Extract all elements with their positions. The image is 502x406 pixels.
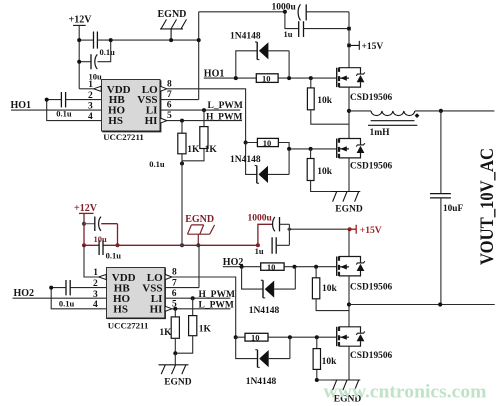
svg-text:H_PWM: H_PWM: [199, 290, 235, 300]
svg-text:10k: 10k: [317, 96, 333, 106]
svg-text:10k: 10k: [317, 167, 333, 177]
wire pin2 HB with bootstrap cap: [47, 99, 102, 101]
wire +12V stem: [78, 25, 80, 88]
svg-text:UCC27211: UCC27211: [108, 321, 149, 331]
wire pin1 VDD U2: [84, 245, 99, 277]
svg-text:10k: 10k: [322, 357, 338, 367]
net HO1 (right): [204, 69, 225, 80]
wire red EGND rail: [84, 244, 258, 246]
ground EGND (top): [158, 9, 187, 20]
svg-text:+12V: +12V: [69, 15, 93, 26]
svg-text:10: 10: [267, 262, 276, 272]
wire output (bottom): [349, 304, 495, 306]
wire +15V rail (bottom): [348, 229, 350, 256]
wire pin7 VSS to ground riser: [160, 99, 199, 101]
svg-text:+12V: +12V: [74, 203, 98, 214]
svg-text:10: 10: [263, 138, 272, 148]
power +12V (bottom, red): [74, 203, 98, 214]
svg-text:8: 8: [172, 268, 177, 278]
resistor R1 10: [256, 74, 278, 83]
inductor L1 1mH: [349, 110, 371, 112]
svg-text:HS: HS: [108, 115, 123, 127]
capacitor C1 0.1u: [94, 32, 98, 49]
pin 8 marker: [160, 86, 167, 91]
svg-text:8: 8: [167, 79, 172, 89]
capacitor C7 0.1u (bottom): [99, 240, 103, 255]
svg-text:1000u: 1000u: [248, 213, 273, 223]
svg-text:HI: HI: [145, 115, 158, 127]
capacitor C11 0.1u bootstrap U2: [66, 280, 70, 295]
svg-text:1K: 1K: [187, 145, 200, 155]
svg-text:EGND: EGND: [335, 204, 363, 214]
svg-text:6: 6: [172, 289, 177, 299]
wire Q4 source to ground: [348, 346, 350, 380]
svg-text:7: 7: [167, 90, 172, 100]
pin 8 marker U2: [165, 274, 172, 279]
wire red +12V stem: [83, 213, 85, 245]
transistor Q4 CSD19506: [337, 327, 365, 347]
transistor Q1 CSD19506: [337, 68, 365, 88]
svg-text:1mH: 1mH: [370, 128, 391, 138]
svg-text:CSD19506: CSD19506: [350, 351, 393, 361]
svg-text:1N4148: 1N4148: [230, 155, 261, 165]
wire pin6 LI: [160, 109, 240, 111]
resistor R9 10: [261, 263, 284, 270]
diode D1 1N4148 branch: [236, 51, 289, 78]
wire pin6 LI U2: [165, 297, 230, 299]
wire pin7 VSS U2 riser: [165, 245, 199, 287]
junction dots top-left: [77, 38, 113, 64]
resistor R2 10: [257, 138, 278, 146]
wire Q3 source to Q4 drain: [348, 276, 350, 327]
svg-text:EGND: EGND: [164, 377, 192, 387]
svg-text:L_PWM: L_PWM: [199, 300, 234, 310]
capacitor C5 10uF: [430, 194, 451, 198]
wire output cap riser: [440, 111, 442, 194]
svg-text:5: 5: [167, 111, 172, 121]
svg-text:UCC27211: UCC27211: [103, 132, 144, 142]
svg-text:10u: 10u: [94, 234, 108, 244]
svg-text:0.1u: 0.1u: [149, 159, 165, 169]
svg-text:+15V: +15V: [360, 226, 382, 236]
svg-text:HI: HI: [150, 303, 163, 315]
svg-text:0.1u: 0.1u: [100, 47, 116, 57]
svg-text:1u: 1u: [255, 246, 264, 256]
wire pin3 HO U2: [13, 297, 107, 299]
capacitor C8 1000u (bottom): [248, 213, 273, 223]
svg-text:HO2: HO2: [14, 288, 35, 299]
svg-text:VOUT_10V_AC: VOUT_10V_AC: [477, 148, 498, 265]
svg-text:1K: 1K: [199, 324, 212, 334]
resistor R8 1K: [191, 296, 195, 300]
capacitor C6 10u (bottom): [84, 223, 95, 225]
svg-text:1u: 1u: [284, 29, 293, 39]
power +15V (bottom): [289, 228, 349, 230]
net HO2 (left): [14, 288, 35, 299]
svg-text:10k: 10k: [322, 284, 338, 294]
wire pin4 HS U2: [51, 288, 106, 309]
capacitor C4 1u: [299, 21, 304, 37]
wire pin5 HI: [167, 120, 242, 122]
svg-text:10uF: 10uF: [443, 204, 463, 214]
svg-text:CSD19506: CSD19506: [350, 161, 393, 171]
svg-text:7: 7: [172, 278, 177, 288]
wire pin5 HI U2: [172, 308, 231, 310]
svg-text:6: 6: [167, 101, 172, 111]
svg-text:10: 10: [262, 74, 271, 84]
wire gate branch C: [223, 266, 337, 268]
op-amp U2 UCC27211 body: [107, 268, 166, 319]
resistor R12 10k: [315, 335, 319, 339]
capacitor C3 1000u: [272, 3, 297, 13]
resistor R6 10k: [309, 147, 313, 151]
svg-text:10: 10: [251, 332, 260, 342]
resistor R7 1K: [173, 307, 177, 311]
wire 10u branch right riser: [98, 40, 111, 62]
diode D2 1N4148 branch: [246, 143, 290, 175]
svg-text:1N4148: 1N4148: [230, 31, 261, 41]
resistor R10 10k: [314, 265, 318, 269]
net VOUT_10V_AC: [477, 148, 498, 265]
svg-text:EGND: EGND: [185, 214, 214, 225]
wire Q2 source to ground: [348, 158, 350, 192]
net HO2 (right): [223, 257, 244, 268]
wire ground to 1000u (corner): [199, 12, 285, 100]
svg-text:CSD19506: CSD19506: [350, 93, 393, 103]
net HO1 (left): [11, 100, 32, 111]
svg-text:EGND: EGND: [158, 9, 187, 20]
capacitor C9 1u (bottom): [272, 237, 276, 254]
svg-text:1K: 1K: [205, 145, 218, 155]
diode D4 1N4148 branch: [236, 337, 290, 358]
wire Q1 source to Q2 drain: [348, 87, 350, 138]
svg-text:CSD19506: CSD19506: [350, 282, 393, 292]
transistor Q3 CSD19506: [337, 256, 365, 276]
ground EGND (Q2): [331, 192, 360, 202]
wire pin4 HS: [47, 100, 102, 121]
wire pin3 HO: [11, 109, 102, 111]
svg-text:1K: 1K: [159, 328, 172, 338]
wire pin2 HB U2 with bootstrap cap: [51, 287, 106, 289]
transistor Q2 CSD19506: [337, 138, 365, 158]
resistor R11 10: [245, 333, 268, 341]
capacitor C2 10u: [90, 54, 92, 69]
gate branch D: [234, 335, 238, 339]
wire 1u branch: [285, 12, 299, 29]
svg-text:1N4148: 1N4148: [246, 377, 277, 387]
pin 1 marker U2: [99, 274, 107, 279]
wire pin1 VDD: [79, 88, 93, 90]
svg-text:0.1u: 0.1u: [106, 251, 122, 261]
diode D3 1N4148 branch: [242, 267, 296, 289]
pin 5 marker U2: [165, 306, 172, 311]
wire 1K chain to bottom EGND wire: [180, 162, 184, 166]
pin 5 marker: [160, 118, 167, 123]
svg-text:0.1u: 0.1u: [59, 299, 75, 309]
power +12V (top): [69, 15, 93, 26]
resistor R5 10k: [309, 76, 313, 80]
svg-text:+15V: +15V: [362, 42, 384, 52]
ground EGND (red): [185, 214, 214, 225]
wire gate branch A: [204, 77, 337, 79]
resistor R3 1K: [180, 119, 184, 123]
wire inductor to output: [415, 110, 495, 112]
svg-text:1N4148: 1N4148: [249, 306, 280, 316]
pin 1 marker: [94, 86, 102, 91]
ground EGND (Q4): [331, 380, 360, 390]
power +15V rail (top): [348, 12, 350, 68]
wire pin8 LO U2 route: [172, 277, 236, 337]
capacitor C10 0.1u bootstrap: [61, 92, 65, 107]
wire top rail left segment: [79, 39, 93, 41]
wire pin8 LO route: [167, 89, 246, 143]
resistor R4 1K: [202, 108, 206, 112]
capacitor label 0.1u (floating): [149, 159, 165, 169]
svg-text:www.cntronics.com: www.cntronics.com: [324, 382, 487, 403]
ground EGND (U2): [174, 353, 176, 365]
wire top ground rail: [97, 39, 198, 41]
svg-text:L_PWM: L_PWM: [208, 101, 243, 111]
svg-text:H_PWM: H_PWM: [206, 113, 242, 123]
wire 10u branch left: [79, 61, 91, 63]
op-amp U1 UCC27211 body: [102, 80, 161, 132]
watermark: [324, 382, 487, 403]
svg-text:HS: HS: [113, 303, 128, 315]
gate branch B: [244, 141, 248, 145]
